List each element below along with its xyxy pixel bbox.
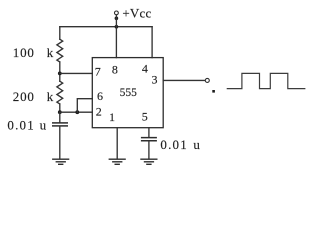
node stray mark (212, 90, 215, 93)
svg-text:7: 7 (95, 64, 101, 78)
wire pin 5 to C2 (148, 128, 150, 138)
capacitor C1 (52, 123, 68, 126)
ground middle (109, 159, 126, 164)
wire node to C1 (59, 112, 61, 122)
wire Vcc dot to pin 8 (115, 18, 117, 57)
wire pin 3 output (163, 79, 205, 81)
capacitor C2 (141, 138, 157, 141)
svg-text:200: 200 (13, 89, 35, 104)
svg-text:2: 2 (96, 104, 102, 118)
svg-text:u: u (40, 117, 47, 132)
ground right (140, 159, 157, 164)
wire R1 bottom to node (59, 62, 61, 81)
wire C2 to ground (148, 141, 150, 159)
svg-text:3: 3 (152, 73, 158, 87)
svg-text:4: 4 (142, 62, 148, 76)
svg-text:100: 100 (13, 45, 35, 60)
svg-text:8: 8 (112, 63, 118, 77)
wire pin 6 L-shape (77, 99, 92, 113)
svg-text:k: k (47, 89, 54, 104)
label 200 k (13, 89, 54, 104)
resistor R2 (57, 81, 63, 104)
wire junction to pin 7 (60, 72, 93, 74)
svg-text:555: 555 (120, 87, 138, 99)
node Vcc junction (115, 25, 119, 29)
wire R2 bottom to node (59, 104, 61, 112)
IC U1 555 (92, 58, 163, 128)
wire C1 to ground (59, 126, 61, 159)
waveform output (227, 73, 304, 88)
svg-text:0.01: 0.01 (7, 117, 35, 132)
node pin6 tie junction (75, 110, 79, 114)
wire rail corner down to R1 (59, 27, 61, 40)
node R2/C1/pin2 junction (58, 110, 62, 114)
svg-text:0.01: 0.01 (160, 137, 188, 152)
svg-text:u: u (193, 137, 200, 152)
+Vcc terminal (115, 11, 119, 20)
svg-text:5: 5 (142, 110, 148, 124)
resistor R1 (57, 39, 63, 62)
svg-text:k: k (47, 45, 54, 60)
wire pin 1 to ground (116, 128, 118, 159)
wire rail to pin 4 (151, 27, 153, 58)
label 0.01 u right (160, 137, 200, 152)
ground left (52, 159, 69, 164)
svg-text:6: 6 (97, 89, 103, 103)
svg-text:1: 1 (109, 110, 115, 124)
label 100 k (13, 45, 54, 60)
output terminal (205, 78, 209, 82)
svg-text:+Vcc: +Vcc (122, 5, 151, 20)
wire Vcc rail (60, 26, 152, 28)
label 0.01 u left (7, 117, 46, 132)
wire pin 2 (60, 111, 93, 113)
node R1/R2/pin7 junction (58, 72, 62, 76)
